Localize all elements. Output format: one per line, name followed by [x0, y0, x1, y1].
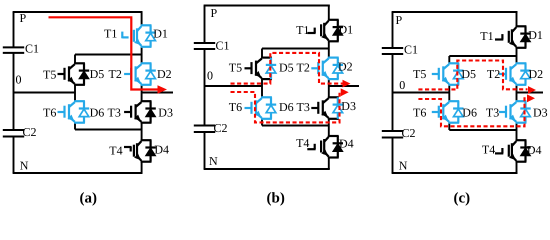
svg-text:N: N	[20, 159, 29, 173]
diode D6	[270, 97, 272, 119]
diode D6	[83, 101, 85, 123]
svg-text:D2: D2	[529, 67, 544, 81]
red dashed path node 0 through D5 T2 to output	[231, 53, 343, 84]
red dashed arrow lower	[527, 94, 535, 102]
svg-text:T5: T5	[413, 67, 426, 81]
wire string T1-T2	[328, 41, 330, 57]
svg-text:(a): (a)	[80, 191, 98, 207]
diode D1	[337, 20, 339, 42]
svg-text:T4: T4	[296, 136, 309, 150]
svg-text:T3: T3	[108, 106, 121, 120]
wire left rail upper	[13, 12, 15, 47]
svg-text:(b): (b)	[267, 191, 285, 207]
wire string T2-out	[328, 79, 330, 97]
wire clamp bottom to T3-T4 midpoint	[448, 123, 450, 130]
wire left rail middle	[13, 53, 15, 130]
wire clamp top to T1-T2 midpoint	[75, 54, 142, 56]
diode D4	[150, 140, 152, 162]
svg-text:T2: T2	[487, 67, 500, 81]
transistor T2	[516, 62, 527, 64]
diode D5	[457, 63, 459, 85]
svg-text:D3: D3	[533, 106, 548, 120]
capacitor C1	[3, 46, 24, 48]
wire string T1-T2	[516, 48, 518, 64]
transistor T4	[328, 135, 339, 137]
svg-text:D3: D3	[341, 99, 356, 113]
svg-text:D6: D6	[90, 106, 105, 120]
svg-text:T2: T2	[297, 61, 310, 75]
svg-text:T5: T5	[229, 60, 242, 74]
red current path P to output through T1 T2	[49, 17, 159, 89]
svg-text:D1: D1	[339, 23, 354, 37]
svg-text:D4: D4	[339, 137, 354, 151]
wire T5 emitter to node 0	[448, 85, 450, 93]
wire string T4-N	[328, 158, 330, 170]
wire node 0 to T6	[74, 93, 76, 102]
node 0 wire	[14, 92, 76, 94]
svg-text:C1: C1	[25, 42, 39, 56]
wire left rail upper	[392, 12, 394, 48]
red arrow output	[158, 85, 168, 93]
wire string P-T1	[516, 12, 518, 26]
wire left rail lower	[13, 137, 15, 174]
diode D1	[150, 25, 152, 47]
svg-text:C2: C2	[23, 125, 37, 139]
wire clamp bottom to T3-T4 midpoint	[261, 119, 263, 126]
svg-text:P: P	[396, 13, 403, 27]
transistor T6	[74, 100, 85, 102]
svg-text:T4: T4	[482, 143, 495, 157]
wire clamp top to T1-T2 midpoint	[262, 48, 329, 50]
svg-text:D4: D4	[154, 142, 169, 156]
svg-text:D6: D6	[279, 100, 294, 114]
transistor T3	[516, 100, 527, 102]
node N bottom wire	[13, 172, 143, 174]
svg-text:T3: T3	[486, 106, 499, 120]
wire T5 emitter to node 0	[74, 85, 76, 93]
transistor T2	[328, 56, 339, 58]
node 0 wire	[393, 92, 450, 94]
diode D1	[524, 26, 526, 48]
diode D2	[524, 63, 526, 85]
capacitor C2	[194, 125, 215, 127]
transistor T6	[261, 96, 272, 98]
transistor T1	[141, 24, 152, 26]
svg-text:D1: D1	[528, 28, 543, 42]
node 0 wire	[205, 85, 263, 87]
red dashed arrow upper	[528, 86, 536, 94]
wire left rail upper	[204, 6, 206, 44]
svg-text:D4: D4	[527, 143, 542, 157]
wire output	[517, 92, 544, 94]
diode D4	[337, 136, 339, 158]
svg-text:0: 0	[399, 78, 405, 92]
diode D5	[83, 63, 85, 85]
svg-text:P: P	[20, 11, 27, 25]
wire left rail lower	[392, 138, 394, 174]
svg-text:C1: C1	[216, 39, 230, 53]
diode D2	[337, 58, 339, 80]
transistor T2	[141, 62, 152, 64]
node N bottom wire	[392, 172, 518, 174]
diode D3	[524, 101, 526, 123]
svg-text:D5: D5	[461, 67, 476, 81]
transistor T5	[261, 56, 272, 58]
svg-text:P: P	[211, 6, 218, 20]
wire string P-T1	[328, 6, 330, 20]
svg-text:T3: T3	[297, 100, 310, 114]
svg-text:C1: C1	[404, 43, 418, 57]
wire left rail middle	[392, 54, 394, 131]
capacitor C2	[382, 130, 403, 132]
svg-text:(c): (c)	[454, 191, 471, 207]
svg-text:C2: C2	[214, 121, 228, 135]
svg-text:T4: T4	[109, 143, 122, 157]
transistor T3	[141, 100, 152, 102]
svg-text:D6: D6	[462, 106, 477, 120]
node N bottom wire	[204, 168, 330, 170]
wire clamp top to T1-T2 midpoint	[449, 55, 516, 57]
svg-text:T5: T5	[43, 68, 56, 82]
transistor T1	[516, 25, 527, 27]
svg-text:0: 0	[16, 73, 22, 87]
svg-text:N: N	[399, 159, 408, 173]
svg-text:N: N	[209, 154, 218, 168]
svg-text:D3: D3	[158, 106, 173, 120]
transistor T4	[516, 139, 527, 141]
node P top wire	[13, 11, 143, 13]
svg-text:C2: C2	[402, 126, 416, 140]
diode D2	[150, 63, 152, 85]
wire string T2-out	[516, 85, 518, 101]
svg-text:D5: D5	[90, 67, 105, 81]
svg-text:0: 0	[207, 69, 213, 83]
svg-text:T1: T1	[104, 27, 117, 41]
svg-text:D2: D2	[157, 67, 172, 81]
wire left rail lower	[204, 132, 206, 169]
wire node 0 to T6	[448, 93, 450, 102]
svg-text:D5: D5	[279, 60, 294, 74]
wire string T4-N	[516, 162, 518, 173]
diode D5	[270, 58, 272, 80]
svg-text:T1: T1	[480, 29, 493, 43]
capacitor C2	[3, 129, 24, 131]
diode D4	[524, 140, 526, 162]
svg-text:T6: T6	[229, 100, 242, 114]
red dashed path node 0 through T6 D3 to output	[231, 92, 342, 122]
wire string T3-T4	[141, 123, 143, 141]
transistor T5	[448, 62, 459, 64]
red dashed path node 0 down through T6 D3 to output	[418, 98, 527, 126]
red dashed arrow upper	[343, 80, 351, 88]
node P top wire	[392, 11, 518, 13]
transistor T3	[328, 96, 339, 98]
wire output	[329, 85, 359, 87]
wire T5 emitter to node 0	[261, 79, 263, 86]
red dashed path node 0 up through D5 over to output	[418, 61, 527, 90]
wire node 0 to T6	[261, 86, 263, 97]
capacitor C1	[382, 47, 403, 49]
transistor T4	[141, 139, 152, 141]
svg-text:T2: T2	[109, 67, 122, 81]
transistor T1	[328, 19, 339, 21]
wire string T1-T2	[141, 47, 143, 63]
wire left rail middle	[204, 49, 206, 126]
wire string T4-N	[141, 162, 143, 173]
wire output	[142, 92, 173, 94]
diode D6	[457, 101, 459, 123]
svg-text:D2: D2	[338, 60, 353, 74]
svg-text:D1: D1	[153, 27, 168, 41]
svg-text:T1: T1	[296, 23, 309, 37]
diode D3	[337, 97, 339, 119]
transistor T5	[74, 62, 85, 64]
svg-text:T6: T6	[413, 106, 426, 120]
wire string T3-T4	[328, 119, 330, 136]
diode D3	[150, 101, 152, 123]
red dashed arrow lower	[341, 88, 349, 96]
svg-text:T6: T6	[43, 106, 56, 120]
capacitor C1	[194, 42, 215, 44]
wire string T3-T4	[516, 123, 518, 141]
wire clamp bottom to T3-T4 midpoint	[74, 123, 76, 130]
wire string T2-out	[141, 85, 143, 101]
wire string P-T1	[141, 12, 143, 25]
transistor T6	[448, 100, 459, 102]
node P top wire	[204, 5, 330, 7]
